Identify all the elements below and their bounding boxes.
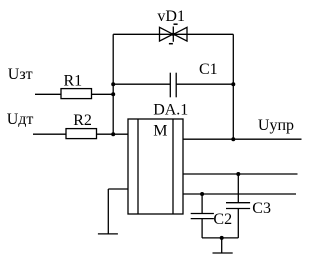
svg-text:R1: R1 (64, 73, 83, 90)
svg-text:Uзт: Uзт (8, 66, 33, 83)
svg-text:C3: C3 (252, 200, 271, 217)
svg-text:Uупр: Uупр (258, 117, 294, 134)
svg-text:R2: R2 (73, 112, 92, 129)
svg-text:Uдт: Uдт (7, 111, 34, 128)
svg-text:vD1: vD1 (157, 8, 185, 25)
svg-text:M: M (153, 123, 167, 140)
svg-text:C2: C2 (213, 211, 232, 228)
svg-text:DA.1: DA.1 (153, 101, 188, 118)
svg-text:C1: C1 (199, 61, 218, 78)
